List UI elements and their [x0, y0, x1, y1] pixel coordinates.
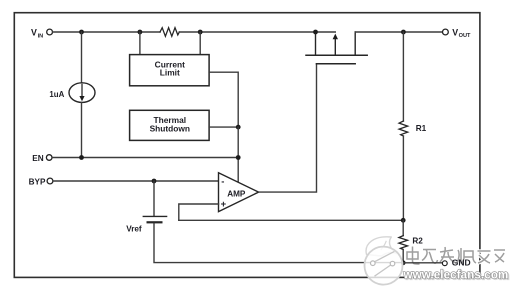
junction BYP/Vref — [152, 179, 157, 184]
svg-text:R1: R1 — [416, 124, 427, 133]
svg-text:V: V — [452, 27, 458, 37]
label VOUT — [452, 27, 471, 39]
junction R2/GND — [401, 260, 406, 265]
sense resistor — [160, 28, 179, 37]
terminal VIN — [47, 29, 53, 35]
wire R2 bottom — [402, 250, 404, 263]
terminal EN — [46, 155, 52, 161]
junction VOUT/R1 — [401, 30, 406, 35]
terminal VOUT — [443, 29, 449, 35]
watermark logo — [365, 237, 403, 285]
wire Vref top — [153, 181, 155, 216]
wire current limit left tap — [139, 32, 141, 55]
watermark text dianzifashaoyou — [407, 247, 505, 265]
wire feedback — [179, 219, 403, 221]
junction feedback node — [401, 218, 406, 223]
junction EN/enable — [236, 155, 241, 160]
svg-text:V: V — [31, 28, 37, 38]
svg-text:AMP: AMP — [227, 189, 246, 198]
wire R1 top — [402, 32, 404, 121]
op-amp AMP — [219, 173, 259, 212]
resistor R1 — [399, 121, 408, 136]
svg-text:www.elecfans.com: www.elecfans.com — [403, 268, 509, 281]
wire current limit output — [209, 72, 238, 125]
svg-text:Vref: Vref — [126, 225, 142, 234]
svg-text:R2: R2 — [412, 236, 423, 245]
wire amp output to gate — [259, 65, 317, 193]
svg-text:OUT: OUT — [459, 33, 471, 39]
current limit block — [130, 55, 210, 86]
svg-text:EN: EN — [32, 154, 43, 163]
junction VIN/current-limit left tap — [138, 30, 143, 35]
wire VIN rail right — [179, 31, 335, 33]
current source 1uA — [69, 83, 95, 103]
junction EN/1uA — [79, 155, 84, 160]
svg-text:GND: GND — [452, 258, 471, 268]
junction thermal/enable — [236, 125, 241, 130]
svg-text:Limit: Limit — [160, 68, 180, 78]
wire 1uA branch lower — [81, 102, 83, 157]
terminal GND — [442, 261, 447, 266]
svg-text:-: - — [221, 177, 224, 188]
wire R1 bottom — [402, 136, 404, 220]
junction VIN rail / source — [313, 30, 318, 35]
wire enable down to amp — [237, 127, 239, 182]
wire VIN rail left — [53, 31, 160, 33]
label VIN — [31, 28, 43, 40]
svg-text:IN: IN — [38, 33, 44, 39]
junction VIN/1uA — [79, 30, 84, 35]
svg-text:Shutdown: Shutdown — [150, 123, 190, 133]
terminal BYP — [47, 178, 53, 184]
thermal shutdown block — [130, 110, 210, 140]
junction VIN/current-limit right tap — [198, 30, 203, 35]
wire current limit right tap — [199, 32, 201, 55]
wire GND — [403, 262, 442, 264]
wire R2 top — [402, 220, 404, 235]
svg-text:BYP: BYP — [29, 178, 46, 187]
wire 1uA branch upper — [81, 32, 83, 83]
voltage reference Vref — [143, 216, 166, 222]
wire Vref bottom to ground rail — [154, 223, 403, 262]
wire amp non-inverting input loop — [179, 204, 219, 220]
wire BYP to amp inverting input — [53, 180, 219, 182]
svg-text:1uA: 1uA — [49, 90, 64, 99]
wire thermal shutdown output — [209, 126, 238, 128]
watermark url — [403, 268, 510, 282]
resistor R2 — [399, 236, 408, 250]
wire drain to VOUT — [355, 31, 442, 33]
svg-text:+: + — [221, 199, 227, 210]
pass transistor Q1 — [306, 32, 367, 64]
wire EN — [53, 157, 239, 159]
